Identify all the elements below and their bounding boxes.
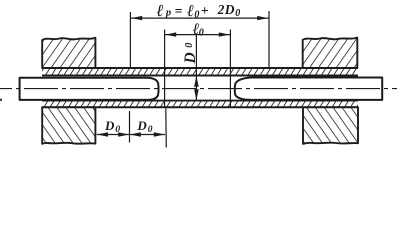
tube outer top line [42, 67, 358, 69]
tube inner top line (bore top) [42, 75, 358, 77]
right wall lower block (coarse hatch, wavy bottom) [303, 107, 358, 144]
label D0 bottom right [136, 118, 152, 135]
svg-text:D: D [104, 118, 115, 133]
centerline (dash-dot axis) [0, 88, 397, 90]
tube outer bottom line [42, 106, 358, 108]
bottom left D0 right arrow [118, 132, 129, 136]
l0 left arrow [165, 32, 176, 36]
label lp = l0 + 2D0 [156, 1, 240, 21]
label l0 (gap length) [192, 21, 204, 39]
extension line left of l0 dimension (crosses tube) [164, 30, 166, 108]
bottom right D0 right arrow [154, 132, 165, 136]
svg-text:0: 0 [199, 28, 204, 39]
svg-text:+: + [201, 3, 209, 18]
svg-text:=: = [175, 3, 183, 18]
svg-text:0: 0 [115, 125, 120, 135]
extension line right of l0 dimension (crosses tube) [229, 30, 231, 108]
svg-text:2: 2 [217, 2, 225, 17]
bottom dimension line (two D0 spans) [97, 134, 165, 136]
bottom dim right extension line [165, 109, 168, 148]
label D0 bottom left [104, 118, 120, 135]
D0 vertical dimension line [195, 35, 197, 100]
extension line right of lp dimension [268, 11, 270, 67]
D0 up arrow [194, 76, 199, 87]
left electrode rod (with bullet nose) [20, 78, 159, 100]
label D0 vertical (bore diameter) [182, 43, 199, 65]
svg-text:D: D [224, 2, 235, 17]
extension line left of lp dimension [129, 12, 131, 68]
left wall lower block (coarse hatch, wavy bottom) [42, 107, 95, 144]
tube inner bottom line (bore bottom) [42, 100, 358, 102]
bushing tube bottom wall (fine hatched strip) [42, 101, 358, 108]
svg-text:D: D [182, 52, 199, 64]
svg-text:ℓ: ℓ [187, 1, 194, 20]
svg-text:0: 0 [235, 8, 240, 19]
right electrode rod (with bullet nose) [235, 78, 382, 100]
D0 down arrow [194, 89, 199, 100]
lp right arrow [257, 16, 268, 20]
scan speck left edge [0, 99, 2, 101]
svg-text:D: D [136, 118, 147, 133]
lp left arrow [131, 16, 142, 20]
bottom left D0 left arrow [97, 132, 108, 136]
svg-text:0: 0 [194, 9, 199, 20]
svg-text:0: 0 [148, 125, 153, 135]
left wall upper block (coarse hatch, wavy top) [42, 38, 95, 68]
bottom right D0 left arrow [130, 132, 141, 136]
bushing tube top wall (fine hatched strip) [42, 68, 358, 76]
right wall upper block (coarse hatch, wavy top) [303, 38, 358, 68]
l0 right arrow [219, 32, 230, 36]
svg-text:0: 0 [184, 43, 195, 48]
lp dimension line [131, 17, 268, 19]
svg-text:p: p [165, 7, 171, 18]
svg-text:ℓ: ℓ [156, 1, 163, 20]
l0 dimension line [165, 34, 230, 36]
bottom dim separator extension line [129, 111, 131, 143]
